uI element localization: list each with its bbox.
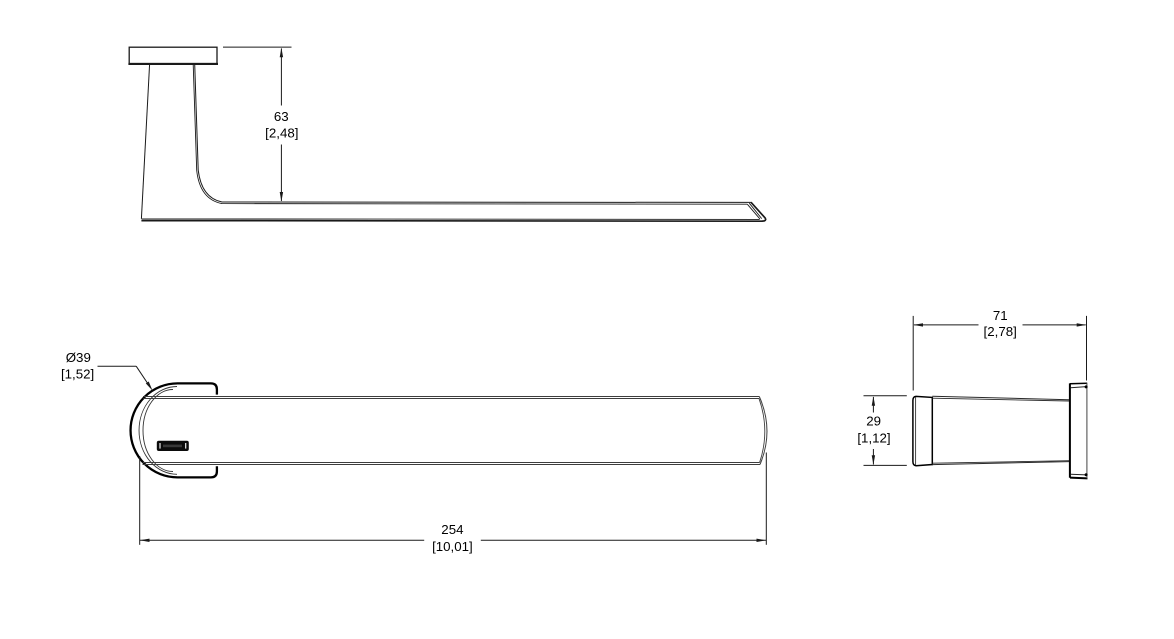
svg-text:63: 63 [274, 109, 289, 124]
svg-text:71: 71 [993, 308, 1008, 323]
svg-text:[10,01]: [10,01] [432, 539, 473, 554]
svg-text:Ø39: Ø39 [66, 350, 91, 365]
svg-text:[1,52]: [1,52] [61, 366, 94, 381]
svg-text:29: 29 [866, 414, 881, 429]
svg-text:[2,78]: [2,78] [984, 324, 1017, 339]
svg-text:254: 254 [441, 522, 463, 537]
svg-text:[2,48]: [2,48] [265, 126, 298, 141]
svg-text:[1,12]: [1,12] [857, 430, 890, 445]
